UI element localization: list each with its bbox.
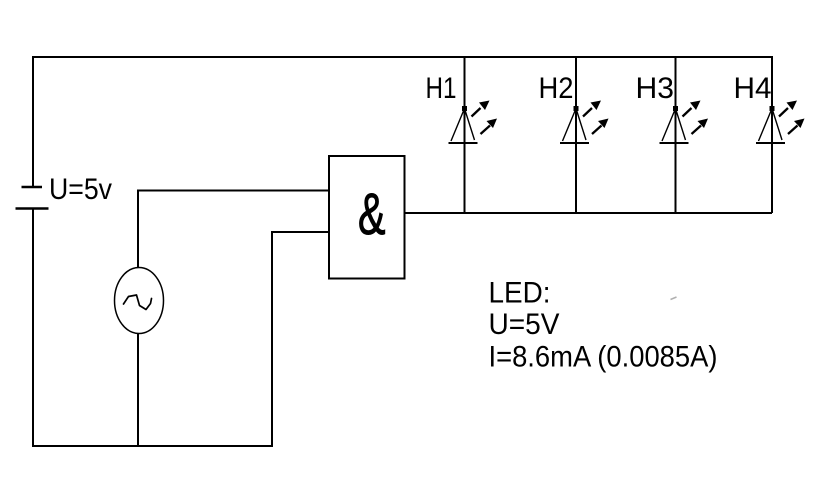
LED H2 symbol	[560, 106, 589, 143]
svg-text:H4: H4	[734, 72, 772, 105]
svg-text:H3: H3	[636, 72, 675, 105]
wire: left vertical (battery - to bottom rail)	[32, 209, 34, 447]
wire: LED H3 column	[675, 57, 677, 213]
svg-text:U=5V: U=5V	[489, 308, 560, 341]
wire: LED H1 column	[464, 57, 466, 213]
wire: left vertical (top rail to battery +)	[32, 56, 34, 186]
battery BT1	[16, 187, 49, 209]
wire: gate input 2 vertical	[271, 232, 273, 447]
wire: top rail	[33, 56, 772, 58]
svg-text:H1: H1	[426, 72, 457, 105]
svg-text:&: &	[358, 182, 386, 247]
AC source G1	[115, 268, 164, 334]
LED H2 light arrows	[583, 101, 609, 135]
LED H4 light arrows	[779, 101, 805, 135]
svg-text:U=5v: U=5v	[49, 173, 112, 206]
wire: gate output / LED bottom rail	[404, 212, 772, 214]
LED H1 light arrows	[472, 101, 498, 135]
AND gate U1	[329, 156, 405, 279]
wire: LED H4 column / right vertical	[771, 56, 773, 213]
wire: bottom rail	[32, 445, 272, 447]
wire: AC source bottom lead	[137, 334, 139, 447]
stray faint mark	[671, 297, 677, 300]
LED H1 symbol	[449, 106, 478, 143]
LED H4 symbol	[756, 106, 785, 143]
wire: LED H2 column	[575, 57, 577, 213]
LED H3 symbol	[660, 106, 689, 143]
sine wave inside AC source	[124, 295, 152, 310]
LED H3 light arrows	[683, 101, 709, 135]
wire: AC source top lead + gate input 1	[138, 191, 329, 269]
wire: gate input 2 horizontal	[271, 231, 329, 233]
svg-text:LED:: LED:	[489, 277, 551, 310]
svg-text:I=8.6mA (0.0085A): I=8.6mA (0.0085A)	[489, 341, 718, 374]
svg-text:H2: H2	[539, 72, 574, 105]
